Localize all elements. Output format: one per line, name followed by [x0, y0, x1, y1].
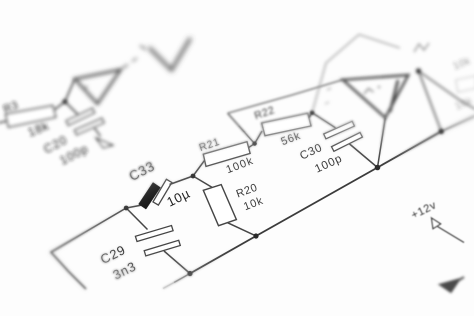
svg-text:+12v: +12v	[409, 199, 438, 221]
svg-text:10k: 10k	[452, 55, 473, 72]
